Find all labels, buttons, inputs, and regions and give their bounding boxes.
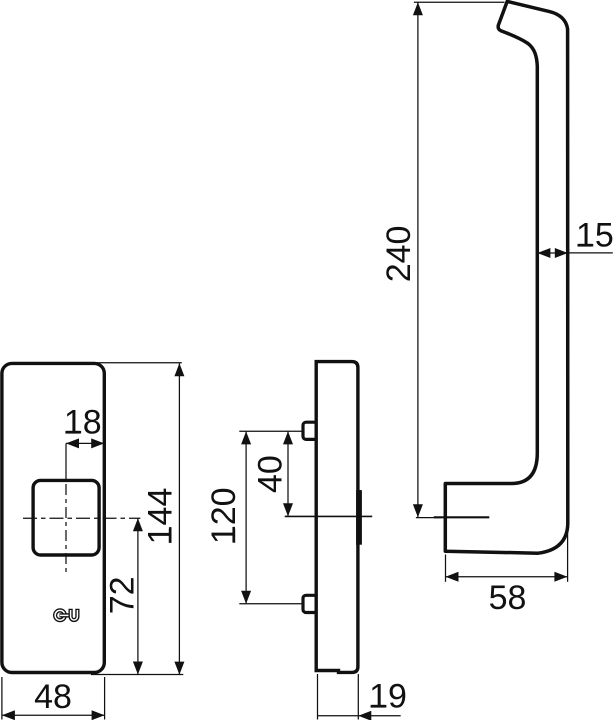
dimension 48 — [2, 677, 105, 720]
svg-text:120: 120 — [205, 487, 243, 544]
horizontal centerline — [23, 517, 140, 519]
spindle square cutout — [33, 480, 99, 555]
spindle bump on side view — [356, 490, 362, 545]
dimension 72 — [104, 518, 143, 674]
side view centerline — [285, 515, 373, 517]
svg-text:19: 19 — [369, 678, 407, 716]
svg-text:72: 72 — [104, 576, 142, 614]
svg-text:18: 18 — [64, 404, 102, 442]
dimension 58 — [446, 528, 568, 617]
side view screw boss lower — [303, 595, 317, 612]
front view plate outline — [2, 363, 104, 672]
svg-text:40: 40 — [251, 455, 289, 493]
dimension 144 — [91, 363, 184, 675]
dimension 15 — [537, 217, 613, 259]
dimension 120 — [205, 431, 302, 604]
vertical centerline — [65, 443, 67, 575]
svg-text:144: 144 — [142, 488, 180, 545]
handle center cross — [416, 516, 489, 518]
svg-text:15: 15 — [576, 217, 613, 255]
dimension 19 — [318, 674, 407, 720]
side view screw boss upper — [303, 422, 317, 439]
svg-text:240: 240 — [380, 226, 418, 283]
side view body profile — [316, 362, 358, 673]
G-U logo — [55, 609, 77, 620]
dimension 40 — [251, 431, 293, 516]
svg-text:48: 48 — [34, 678, 72, 716]
svg-text:58: 58 — [489, 579, 527, 617]
handle outline — [445, 1, 568, 553]
dimension 240 — [380, 2, 504, 517]
dimension 18 — [64, 404, 104, 449]
